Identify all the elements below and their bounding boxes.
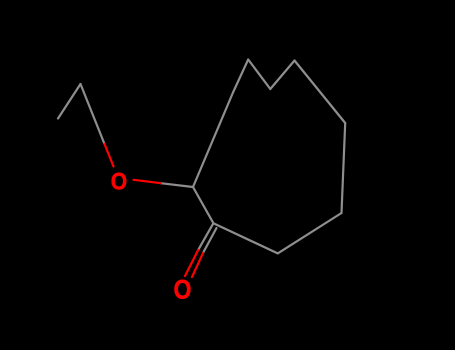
svg-text:O: O xyxy=(173,275,191,305)
O-C1 bond red part xyxy=(134,180,161,183)
CH2-O bond upper gray part xyxy=(81,84,105,144)
O ether label xyxy=(111,168,127,195)
C2=O2 double bond gray halves xyxy=(198,223,213,250)
V4-B ring bond xyxy=(278,213,342,253)
P2-V3 ring bond xyxy=(295,61,346,124)
C2=O2 double bond red halves xyxy=(185,250,198,276)
CH2-O bond red part xyxy=(105,144,114,167)
C1-V1 ring bond xyxy=(193,93,233,188)
V2-P2 ring bond xyxy=(270,61,294,90)
ethyl CH3-CH2 bond xyxy=(58,84,81,119)
C2-C1 ring bond xyxy=(193,187,213,223)
O-C1 bond gray part xyxy=(161,183,193,187)
O carbonyl label xyxy=(173,275,191,305)
P1-V2 ring bond xyxy=(248,60,270,90)
V1-P1 ring bond xyxy=(233,60,248,93)
svg-text:O: O xyxy=(111,168,127,195)
B-C2 ring bond xyxy=(213,223,277,253)
V3-V4 ring bond xyxy=(342,123,346,213)
